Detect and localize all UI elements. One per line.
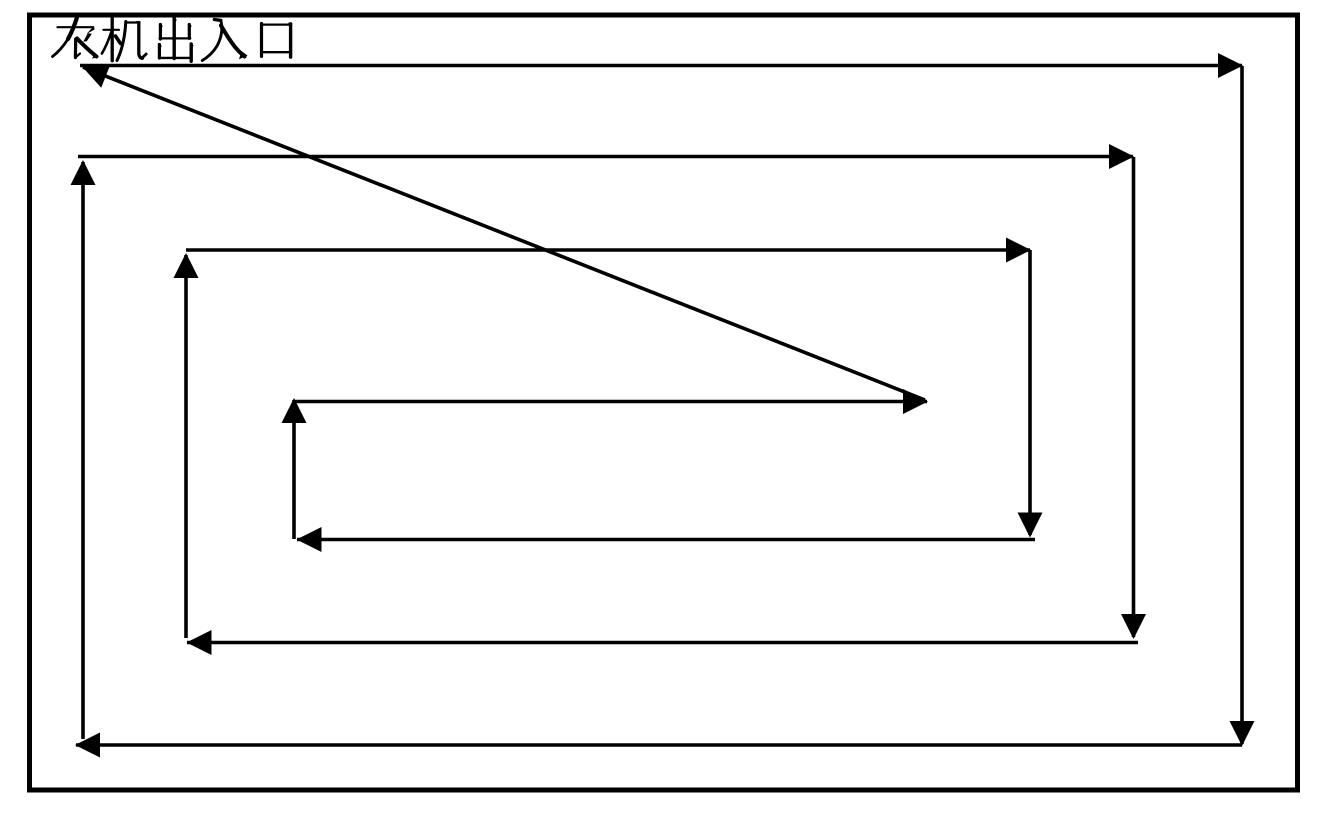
wire: pass 3 top, rightward, arrow right	[186, 238, 1031, 263]
wire: pass 2 bottom, leftward, arrow left	[187, 630, 1139, 655]
wire: diagonal return from centre to entrance, arrow up-left	[83, 65, 926, 400]
wire: pass 2 right side, downward, arrow down	[1121, 157, 1146, 639]
wire: pass 2 left side, upward, arrow up	[71, 160, 96, 739]
机	[102, 17, 146, 61]
wire: pass 3 left side, upward, arrow up	[174, 253, 199, 638]
口	[262, 23, 293, 58]
wire: pass 3 bottom, leftward, arrow left	[297, 527, 1036, 552]
wire: pass 1 bottom, leftward, arrow left	[75, 733, 1242, 758]
label 农机出入口 (machinery entrance/exit)	[53, 17, 293, 61]
wire: pass 2 top, rightward, arrow right	[78, 144, 1134, 169]
wire: pass 1 right side, downward, arrow down	[1230, 66, 1255, 746]
农	[53, 18, 99, 59]
wire: pass 1 top, leftward start to right, arrow right	[80, 53, 1243, 78]
出	[158, 18, 194, 61]
wire: pass 4 top, rightward to centre, arrow right	[294, 389, 928, 414]
wire: pass 3 right side, downward, arrow down	[1018, 250, 1043, 538]
wire: pass 4 left side, upward, arrow up	[282, 398, 307, 539]
入	[202, 20, 247, 61]
